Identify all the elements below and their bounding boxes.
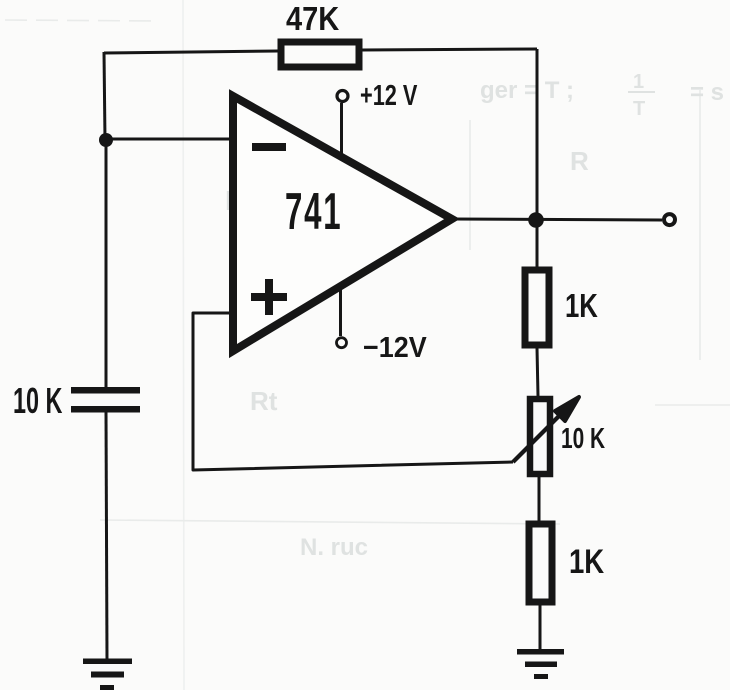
svg-text:1K: 1K bbox=[569, 542, 605, 580]
ground (left) bbox=[83, 659, 132, 665]
capacitor C 10K: top plate bbox=[71, 387, 140, 394]
svg-text:10 K: 10 K bbox=[561, 423, 605, 455]
svg-text:1K: 1K bbox=[565, 288, 598, 325]
ground (right) bbox=[517, 649, 564, 655]
plus input symbol bbox=[251, 293, 287, 301]
svg-text:R: R bbox=[570, 146, 589, 176]
potentiometer arrowhead bbox=[555, 397, 579, 421]
node A junction dot (inverting input) bbox=[99, 133, 113, 147]
svg-text:ger = T ;: ger = T ; bbox=[480, 77, 574, 104]
wire: node A to inverting input bbox=[106, 138, 233, 141]
svg-text:10 K: 10 K bbox=[13, 382, 62, 421]
resistor R 1K (lower) bbox=[529, 524, 552, 602]
potentiometer P 10K body bbox=[530, 399, 550, 474]
wire: output node down to R 1K bbox=[536, 220, 539, 267]
wire: node A down to capacitor bbox=[105, 140, 108, 388]
output terminal bbox=[664, 214, 675, 225]
svg-text:741: 741 bbox=[285, 183, 342, 241]
potentiometer arrow shaft bbox=[513, 411, 564, 462]
svg-text:Rt: Rt bbox=[250, 386, 278, 416]
minus input symbol bbox=[252, 143, 286, 151]
svg-text:= s: = s bbox=[690, 79, 724, 106]
wire: left vertical from top corner to node A bbox=[104, 52, 105, 140]
svg-text:+12 V: +12 V bbox=[360, 80, 417, 112]
wire: R 1K to ground bbox=[539, 605, 542, 651]
svg-text:1: 1 bbox=[633, 71, 644, 93]
resistor R 1K (upper) bbox=[525, 270, 549, 345]
wire: R 1K to potentiometer bbox=[537, 348, 538, 396]
svg-text:−12V: −12V bbox=[363, 331, 427, 363]
svg-text:T: T bbox=[633, 98, 645, 120]
capacitor C 10K: bottom plate bbox=[71, 406, 140, 413]
resistor R 47K bbox=[281, 42, 359, 67]
wire: non-inverting input feedback run bbox=[193, 313, 513, 470]
wire: op-amp to -12V bbox=[339, 287, 342, 336]
wire: resistor to top-right corner bbox=[362, 49, 537, 50]
wire: +12V to op-amp bbox=[340, 103, 343, 158]
wire: top feedback horizontal bbox=[104, 51, 278, 53]
+12V supply terminal bbox=[337, 91, 348, 102]
svg-text:47K: 47K bbox=[286, 0, 340, 37]
-12V supply terminal bbox=[337, 338, 347, 348]
svg-text:N. ruc: N. ruc bbox=[300, 534, 368, 561]
wire: right vertical down to output node bbox=[536, 49, 539, 218]
wire: potentiometer to R 1K (lower) bbox=[538, 477, 541, 521]
wire: capacitor to ground bbox=[106, 412, 107, 660]
wire: op-amp output bbox=[452, 219, 662, 220]
op-amp U1 741 bbox=[233, 96, 452, 351]
output node junction dot bbox=[528, 212, 544, 228]
